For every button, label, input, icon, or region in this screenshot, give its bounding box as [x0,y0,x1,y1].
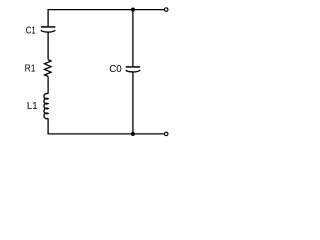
svg-text:R1: R1 [25,64,36,75]
svg-text:C0: C0 [109,64,122,75]
label C0 [109,64,122,75]
terminal top [164,8,168,12]
capacitor C1 [41,27,55,32]
label L1 [27,101,38,112]
junction dot bottom [131,132,135,136]
terminal bottom [164,132,168,136]
svg-text:C1: C1 [26,25,36,36]
svg-text:L1: L1 [27,101,38,112]
wire bottom rail [48,118,164,134]
wire C1 to R1 [47,32,49,60]
wire R1 to L1 [47,76,49,93]
wire right branch lower [132,72,134,134]
wire right branch upper [132,10,134,67]
capacitor C0 [126,67,140,72]
junction dot top [131,8,135,12]
inductor L1 [44,93,48,118]
wire top rail [48,10,164,27]
label C1 [26,25,36,36]
label R1 [25,64,36,75]
resistor R1 [45,60,52,77]
